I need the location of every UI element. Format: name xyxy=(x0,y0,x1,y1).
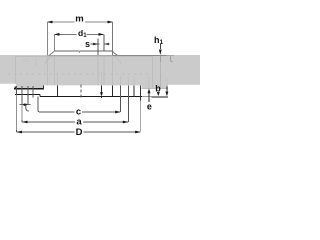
D right extension gray lower xyxy=(140,101,142,133)
h1 arrow line xyxy=(159,44,161,49)
svg-text:e: e xyxy=(147,102,152,112)
step vertical xyxy=(39,94,41,96)
right pocket bottom edge xyxy=(142,87,169,89)
flange lower-left corner stub xyxy=(14,86,16,89)
D left extension xyxy=(16,86,18,95)
D right arrow xyxy=(135,131,141,134)
faint bolt circle dotted line in band xyxy=(8,73,150,75)
a left arrow xyxy=(22,121,28,124)
left stub vertical short xyxy=(32,86,34,98)
neck centerline tick xyxy=(79,51,81,54)
D right extension black upper xyxy=(140,85,142,100)
gasket lower line left xyxy=(15,93,40,95)
d1 extension right / pipe wall outer xyxy=(103,34,105,51)
sealing face line right part xyxy=(152,96,169,98)
d1 left arrow xyxy=(54,33,60,36)
e dimension arrow up xyxy=(148,88,151,93)
small dimension arrows at left xyxy=(20,104,31,106)
m extension line right xyxy=(112,22,114,55)
sealing face line gray part xyxy=(142,96,152,98)
svg-text:D: D xyxy=(76,127,83,138)
svg-text:s: s xyxy=(85,39,90,49)
faint hub fillet left in band xyxy=(45,56,54,64)
faint hook right of h1 arrow xyxy=(171,56,173,62)
stub bore vertical xyxy=(57,85,59,96)
flange top edge under neck xyxy=(47,55,118,57)
pipe wall inner line xyxy=(97,39,99,56)
s right tail xyxy=(104,43,110,45)
s leader line xyxy=(91,43,100,45)
b down arrow xyxy=(165,92,168,97)
m dimension line xyxy=(48,21,113,23)
svg-text:a: a xyxy=(76,117,82,128)
h1 down arrow xyxy=(159,50,162,56)
neck left fillet xyxy=(49,52,54,56)
m extension line left xyxy=(47,22,49,55)
a left extension xyxy=(21,86,23,105)
m right arrow xyxy=(108,21,114,24)
faint hub fillet right in band xyxy=(112,56,121,64)
b arrow line xyxy=(166,87,168,93)
b small arrow under label xyxy=(157,92,160,96)
D left arrow xyxy=(17,131,23,134)
a right extension xyxy=(127,85,129,122)
D dimension line xyxy=(17,131,75,133)
pocket right edge xyxy=(43,85,45,89)
c right arrow xyxy=(115,111,121,114)
right mid verticals xyxy=(112,85,114,96)
centerline vertical (dashed) xyxy=(80,85,82,98)
flange top surface right xyxy=(113,54,167,56)
d1 right arrow xyxy=(99,33,105,36)
m left arrow xyxy=(47,21,53,24)
faint lower-half verticals in band xyxy=(58,72,167,88)
a dimension line xyxy=(22,121,75,123)
flange bottom line left xyxy=(14,88,44,90)
small leader hook from stub vertical xyxy=(26,105,29,111)
sealing face line xyxy=(40,95,142,97)
faint flange outline inside band xyxy=(15,55,153,88)
c right extension xyxy=(120,85,122,112)
d1 extension left xyxy=(54,34,56,51)
flange top surface right lighter tail xyxy=(166,54,174,56)
bore edge vertical with small down arrow xyxy=(101,85,103,92)
svg-text:m: m xyxy=(75,13,83,24)
left stub vertical with leader xyxy=(27,86,29,105)
s left arrow xyxy=(93,43,98,46)
gray overlay band across flange body (uneven bottom) xyxy=(0,55,200,89)
a right arrow xyxy=(123,121,129,124)
neck top line xyxy=(54,50,113,52)
s right arrow xyxy=(104,43,109,46)
faint marks upper band left xyxy=(22,60,37,66)
c dimension line xyxy=(38,96,75,112)
neck right fillet xyxy=(113,52,118,56)
d1 dimension line xyxy=(55,33,104,35)
faint h1 lower arrow line in band xyxy=(159,56,161,62)
